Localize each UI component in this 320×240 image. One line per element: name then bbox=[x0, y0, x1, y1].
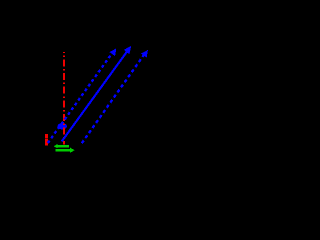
arrowhead of dashed ray 1 bbox=[109, 48, 116, 56]
arrowhead of dashed ray 3 bbox=[141, 50, 148, 58]
red dash-dot vertical axis line bbox=[63, 52, 65, 145]
wire: solid ray 2 (middle) bbox=[62, 50, 128, 141]
green arrow pointing right (bottom) bbox=[56, 149, 71, 151]
wire: dashed ray 1 (left) bbox=[48, 52, 113, 143]
arrowhead of solid ray 2 bbox=[124, 46, 132, 54]
green arrow pointing left (top) bbox=[58, 145, 70, 147]
red dashed side mark bbox=[45, 134, 48, 146]
node: blue particle disc on axis bbox=[58, 123, 67, 129]
wire: dashed ray 3 (right) bbox=[82, 53, 145, 143]
